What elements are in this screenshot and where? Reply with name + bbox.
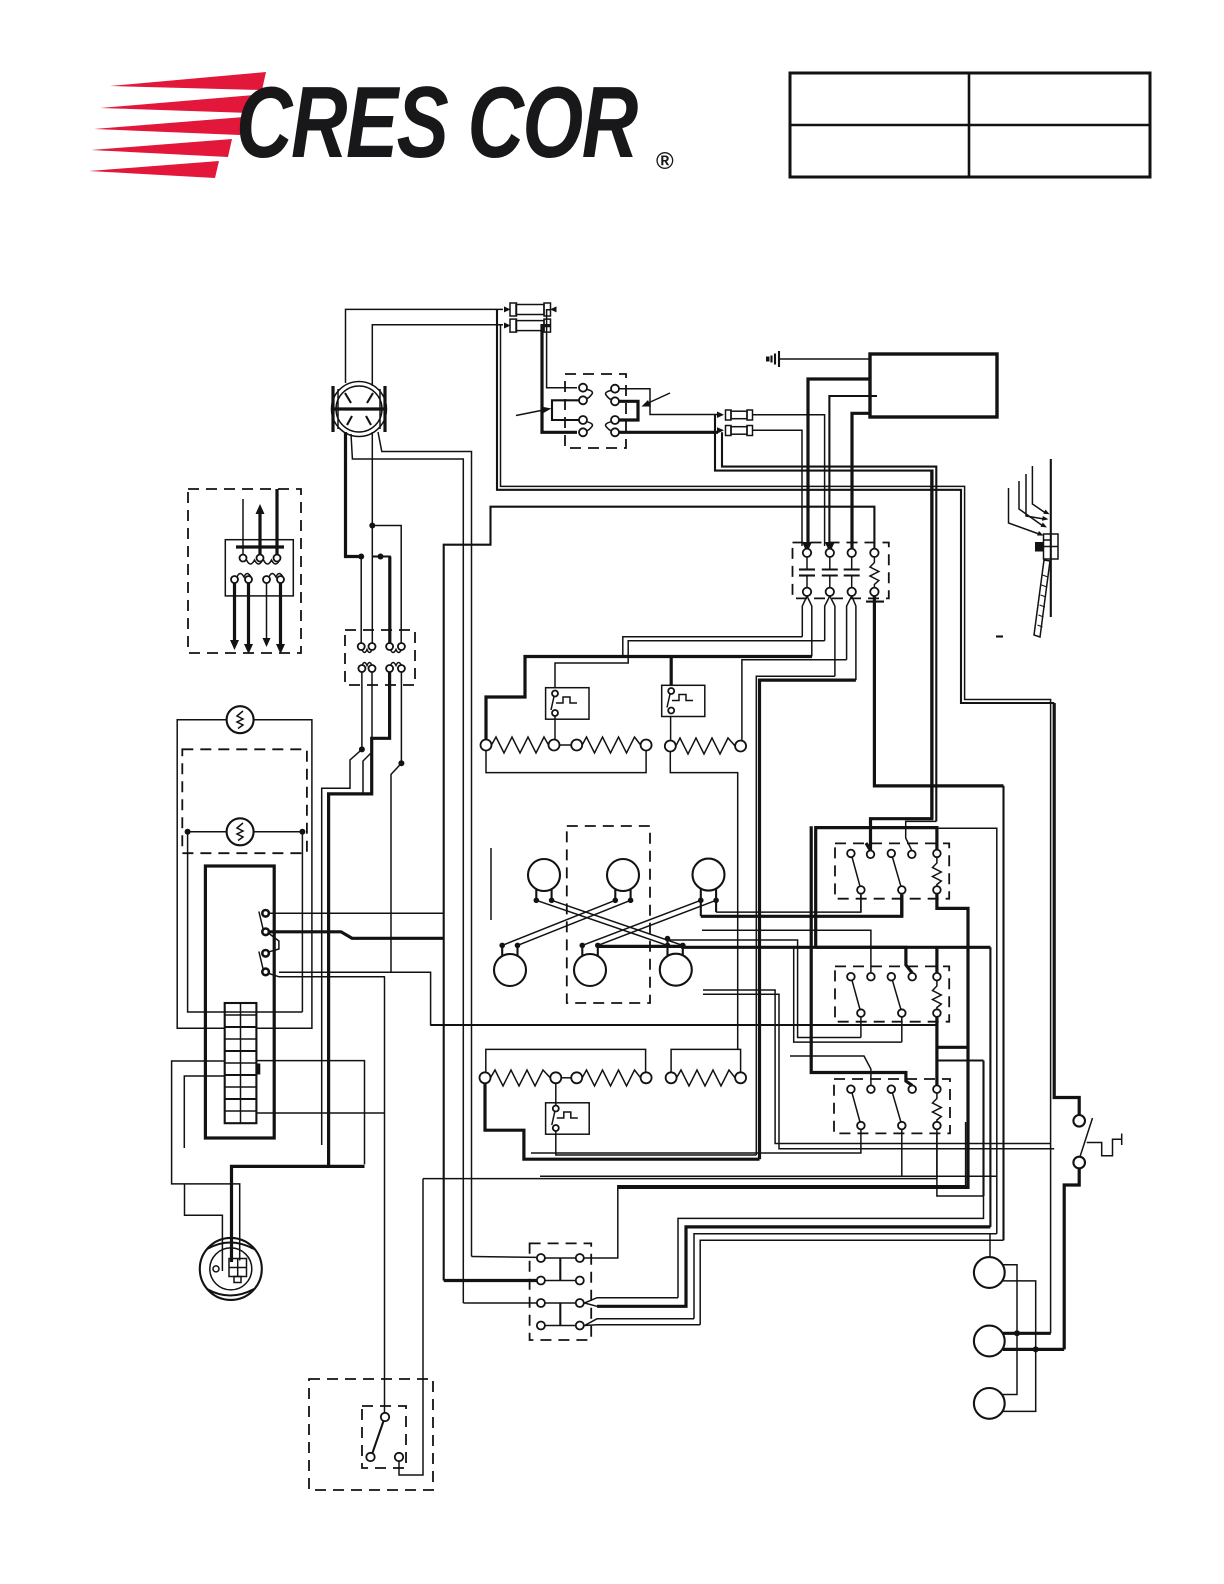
wire: TB1 row2 left feed (heavy) — [444, 1279, 537, 1282]
heater element E3 — [665, 738, 746, 754]
wire: TB1 row1 left feed — [472, 1256, 537, 1259]
dashed enclosure around lamp L2 — [182, 749, 307, 853]
probe blade — [1034, 560, 1050, 637]
R3 contact A — [847, 1085, 855, 1093]
R3 contact B — [888, 1085, 896, 1093]
outer dashed box — [309, 1379, 433, 1490]
wire: PL1 top to PL3 top — [1002, 1265, 1017, 1395]
wire: TH2 bottom to heater element row1 right-left terminal — [670, 717, 672, 741]
wire: R3 coil bottom to nested corner — [678, 1129, 984, 1297]
cluster circle C4 — [494, 954, 526, 986]
R2 contact B — [888, 973, 896, 981]
thermostat TH2 — [662, 685, 705, 716]
C1 leads — [536, 889, 551, 900]
wire: motor lead C right and down — [351, 434, 463, 1303]
chassis ground — [766, 351, 870, 367]
fuse F4 — [717, 426, 753, 436]
wire: plug heavy lead up to center riser — [232, 1166, 365, 1262]
node junction — [358, 554, 364, 560]
wire: relay R2 pin2 thin feed — [702, 930, 871, 972]
wire: TB1 row1 right to bus riser — [584, 1122, 966, 1258]
transformer T1 primary winding — [240, 555, 281, 565]
wire: motor lead B up to fuse F2 — [372, 325, 503, 386]
probe harness arrow 3 — [1026, 474, 1044, 519]
wire: thermostat TH2 top to heavy run (heavy) — [670, 657, 673, 686]
heater element E2 — [571, 737, 651, 753]
wire: nested loop 4 long riser — [700, 1240, 1003, 1325]
wire: center long run y=1023 — [431, 1024, 937, 1026]
wire: R1 coil top loop to left heavy bus — [816, 828, 937, 948]
wire: PL1 bottom to PL3 bottom — [1002, 1281, 1036, 1412]
wire: junction down to T2 primary 1 — [360, 557, 362, 644]
thermostat TH1 — [546, 688, 589, 720]
wire: lamp L2 horizontal — [188, 831, 303, 833]
fuse F1 — [504, 303, 557, 316]
R3 pin 4 — [908, 1085, 916, 1093]
svg-text:CRES COR: CRES COR — [236, 66, 638, 179]
wire: left heavy bus down to R3 pin4 feed — [811, 826, 912, 1085]
wire: K2 contact 1 to center — [269, 912, 444, 914]
wire: coil chain cross link — [937, 1046, 968, 1049]
wire: selector T1 to fuse F3 — [619, 389, 718, 415]
wire: tap from F4 line down to bus (heavy) — [722, 432, 936, 821]
wire: col2-left leg to thermostat TH1 — [555, 641, 825, 688]
wire: fuse F1 to selector S1 terminal L1 — [547, 310, 577, 388]
wire: TB1 row4 arrow harness — [585, 1319, 701, 1326]
contactor pole 3 — [848, 549, 856, 557]
wire: long wrap pair A — [703, 990, 1051, 1144]
wire: K2 contact 2 to center (heavy) — [269, 932, 444, 939]
transformer T1 secondary output leads with arrows — [230, 583, 285, 654]
wire: col3-right leg down middle bus (heavy) — [760, 680, 856, 1159]
wire: ladder right row to center riser — [256, 1061, 364, 1165]
wire: C6 right lead heavy run to relay R2 pin4 / coil bus — [598, 945, 991, 949]
pilot light PL2 — [974, 1326, 1005, 1357]
wire: motor lead A up to fuse F1 — [346, 309, 504, 383]
relay R1 dashed box — [835, 843, 949, 898]
selector right wiper bracket — [619, 401, 638, 420]
wire: TH3 bottom to middle bus — [556, 1131, 757, 1155]
title block table (empty 2x2) — [790, 73, 1150, 177]
indicator lamp L1 — [227, 706, 254, 733]
logo speed lines (red) — [89, 72, 266, 178]
T2 winding 1 secondary — [362, 663, 372, 666]
wire: motor lead B down — [371, 432, 373, 643]
blower motor M1 — [332, 382, 387, 437]
wire: coil circuit from contactor col4 up-left (to box area) — [444, 507, 875, 1281]
R2 pin 2 — [867, 973, 875, 981]
transformer T1 frame — [225, 540, 293, 596]
wire: C3 left lead to relay R1 contact B (heavy) — [701, 895, 902, 917]
C6 leads — [668, 939, 683, 956]
wire: lamp L2 right drop to terminal strip — [301, 832, 303, 1012]
wire: R3 contact B output — [540, 1129, 997, 1176]
capillary probe line — [1050, 459, 1052, 617]
wire: E4 left heavy wrap to right bus — [485, 1083, 760, 1159]
wire: PL1 top feed — [989, 1234, 991, 1257]
contactor pole 2 — [825, 542, 835, 553]
wire: door switch bottom out (heavy) — [1064, 1168, 1079, 1349]
R2 coil — [933, 973, 941, 981]
wire: bus to R1 pin2 (heavy) — [866, 471, 932, 851]
wire: fuse F3 to contactor K1 terminal 2 — [753, 415, 825, 546]
wire: motor lead A down (heavy) — [346, 432, 362, 557]
R2 pin 4 — [908, 973, 916, 981]
T2 winding 1 primary — [358, 643, 365, 650]
R1 pin 4 — [908, 851, 916, 859]
wire: PL2 top to bus (heavy) — [1003, 1332, 1051, 1335]
wire pair: C3 to C5 diagonals — [582, 900, 716, 945]
wire: wrap line B to relay R2 contact B — [794, 946, 902, 1042]
T2 winding 2 primary — [386, 643, 393, 650]
wire: R2 coil top/bottom chain — [935, 947, 938, 973]
svg-text:®: ® — [656, 148, 674, 175]
wire: TH3 top to E4 junction — [555, 1083, 557, 1105]
wire: R2 contact B drop — [901, 1017, 903, 1042]
short divider segment left of cluster — [490, 848, 492, 920]
contactor coil column — [870, 549, 878, 557]
selector left wiper arrow — [516, 407, 552, 416]
R1 contact A — [847, 850, 855, 858]
heater element E4 — [480, 1070, 562, 1086]
heater element E1 — [481, 737, 560, 753]
wire: lamp L2 left drop to terminal strip — [188, 832, 303, 1012]
wire: motor lead D right and down — [378, 432, 472, 1257]
wire: control box output 3 (heavy) to contactor — [852, 413, 870, 548]
wire: coil1 net long riser — [937, 828, 997, 1233]
inner dashed box — [362, 1406, 406, 1468]
wire: col1-left leg across to elbow — [623, 637, 803, 657]
wire: aux return to relay bus — [423, 1134, 937, 1179]
wire: ladder right row to pilot switch drop — [256, 977, 384, 1413]
wire: heavy run to heater element row1 left — [486, 657, 812, 740]
tick mark — [996, 635, 1003, 637]
wire: control box output 1 (heavy) to contactor — [808, 379, 870, 546]
control box A1 — [870, 354, 997, 417]
wire: R3 contact A output — [531, 1129, 861, 1153]
wire: long wrap pair B — [703, 994, 1054, 1148]
cluster circle C2 — [607, 859, 639, 891]
contactor pole 1 — [802, 542, 812, 553]
dashed enclosure (transformer T1) — [188, 489, 301, 653]
wire: thin feed to R3 pin2 — [790, 1056, 871, 1085]
wire: SW1 output jog — [399, 1179, 423, 1475]
wire: T2 secondary 2 output jog — [363, 672, 372, 795]
R2 contact A — [847, 973, 855, 981]
selector left contacts — [579, 384, 592, 437]
cluster circle C1 — [528, 859, 560, 891]
R1 pin 2 — [867, 851, 875, 859]
wire: bridge over E4/E5 — [486, 1049, 646, 1072]
pilot switch SW1 — [366, 1413, 403, 1461]
wire pair: C2 to C4 diagonals — [502, 900, 630, 945]
pilot light PL3 — [974, 1388, 1005, 1419]
wire: C3 right lead to relay R1 contact A — [716, 895, 861, 913]
heater element E6 — [666, 1070, 747, 1086]
wire: bus to R1 pin4 — [906, 821, 937, 850]
logo wordmark CRES COR — [236, 66, 674, 179]
wire: bus tap from F1 line down-left (to right-hand bus) — [497, 309, 1054, 703]
selector right contacts — [606, 385, 619, 437]
indicator lamp L2 — [227, 818, 254, 845]
transformer T1 secondary windings — [231, 574, 284, 584]
C5 leads — [582, 945, 598, 956]
wire: K2 contact 4 to center — [269, 972, 431, 1025]
fuse F3 — [717, 410, 753, 420]
wire: nested loop 3 to PL1 — [694, 1234, 997, 1319]
wire: contactor col4 coil bottom down and right (heavy) — [874, 596, 1003, 786]
wire: heavy feed to R2 pin4 — [816, 947, 913, 973]
wire: PL2 bottom to door switch net (heavy) — [1003, 1348, 1064, 1351]
wire: col3-left leg down to heater element row1 right — [742, 660, 847, 741]
R3 coil — [933, 1085, 941, 1093]
wire: TB1 row3 arrow harness — [585, 1298, 679, 1307]
R1 coil — [933, 850, 941, 858]
wire: bridge over E6 fed from bank1 wrap — [671, 1049, 741, 1072]
wire: ladder left row 2 to lower-left drop — [184, 1076, 224, 1271]
wire: coil3 top cross link — [937, 1061, 984, 1197]
wire: control box output 2 to contactor — [829, 396, 877, 546]
wire: C6 left lead wrap to relay R2 contact A — [668, 940, 861, 1038]
wire: E1/E2 wrap-under loop — [486, 751, 646, 773]
door switch DS1 — [1073, 1115, 1121, 1168]
wire: fuse F4 to contactor K1 terminal 1 — [753, 430, 802, 546]
wire: selector T4 to fuse F4 (heavy) — [619, 431, 718, 434]
transformer T1 primary leads — [236, 489, 284, 555]
wire: R1 bottom A drop to heater feed — [860, 895, 862, 913]
wire: heavy feed from coil bus to door switch — [1054, 703, 1079, 1115]
wire: E3 wrap-under to middle bus — [670, 752, 737, 1050]
wire: TB1 row3 left feed — [463, 1302, 537, 1304]
cluster circle C6 — [660, 954, 692, 986]
cluster circle C3 — [693, 859, 725, 891]
wire: R2 coil net down the right — [989, 947, 991, 1227]
wire: tap from F3 line down to bus — [715, 415, 933, 819]
wire: T2 secondary 4 output jog and drop — [391, 672, 401, 972]
probe harness arrow 4 — [1032, 466, 1045, 513]
wire: R2 contact A drop — [860, 1017, 862, 1038]
node: row1 link — [560, 744, 572, 746]
selector switch S1 (dashed box) — [565, 374, 626, 448]
wire: R2 coil net to TB1 row3 (heavy) — [597, 1227, 990, 1306]
C2 leads — [615, 889, 630, 900]
selector left wiper bracket — [552, 400, 579, 420]
R3 pin 2 — [867, 1085, 875, 1093]
probe harness arrow 1 — [1009, 488, 1040, 534]
heater element E5 — [571, 1070, 651, 1086]
wire: lamp L1 loop — [177, 720, 226, 1029]
wire: col1-right leg joining heavy run — [811, 656, 813, 658]
wire: branch to T2 primary 3 (heavy) — [372, 557, 390, 644]
wire: R1 coil bottom to right drop (heavy) — [618, 894, 968, 1188]
fuse F2 — [504, 319, 551, 332]
probe harness arrow 2 — [1019, 481, 1043, 526]
cluster circle C5 — [574, 954, 606, 986]
wire: T2 winding2 top link (heavy) — [329, 672, 390, 1166]
R1 contact B — [888, 850, 896, 858]
wire: bus tap from F2 line down (to right-hand bus) — [501, 325, 1051, 1334]
node link row2 — [561, 1077, 571, 1079]
K2 auxiliary contacts — [259, 910, 279, 975]
C3 leads — [701, 889, 716, 917]
wire: fuse F2 to selector S1 terminal L4 (heavy) — [542, 326, 577, 433]
C4 leads — [502, 945, 517, 956]
wire: col2-right leg down middle bus — [756, 676, 835, 1155]
wire: T2 secondary 1 output jog left and long drop — [322, 672, 362, 1145]
thermostat TH3 — [546, 1103, 590, 1134]
pilot light PL1 — [974, 1257, 1005, 1288]
probe body — [1035, 534, 1058, 559]
wire: R1 bottom B drop (heavy) — [900, 895, 903, 917]
wire: contactor col4 net long riser — [1002, 786, 1004, 1240]
wire: TH1 bottom to heater junction — [554, 716, 556, 740]
wire pair: C1 to C6 diagonals — [536, 900, 683, 945]
selector right wiper arrow — [642, 393, 671, 407]
T2 winding 2 secondary — [391, 663, 402, 666]
dashed box around cluster column — [567, 826, 650, 1003]
wire: branch to T2 primary 4 — [372, 526, 401, 644]
wire: ladder left row to lower-left drop — [172, 1061, 240, 1261]
